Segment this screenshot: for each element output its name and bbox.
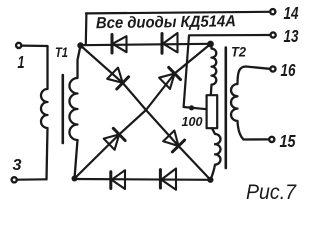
label T1 (55, 44, 68, 60)
svg-text:100: 100 (182, 114, 204, 129)
wire terminal 1 to T1 primary top (22, 44, 48, 47)
diode VD2 (top edge right, pointing left) (162, 33, 178, 53)
terminal 15 (269, 137, 274, 142)
svg-text:Все диоды КД514А: Все диоды КД514А (96, 13, 236, 32)
label 3 (13, 157, 22, 174)
label 100 (182, 114, 204, 129)
wire top rail to terminal 14 (86, 12, 269, 14)
wire terminal 13 to tap resistor (184, 35, 270, 109)
svg-text:13: 13 (284, 26, 299, 46)
T2 core (225, 48, 228, 169)
T1 core (61, 75, 64, 143)
terminal 3 (12, 177, 17, 182)
svg-text:14: 14 (284, 3, 299, 23)
svg-text:15: 15 (280, 131, 296, 151)
transformer T1 primary winding (41, 46, 48, 179)
T1 secondary winding (69, 46, 80, 179)
label 13 (284, 26, 299, 46)
node BR corner of ring (207, 177, 213, 183)
caption Рис.7 (246, 180, 297, 204)
T2 primary lower winding (210, 128, 220, 180)
terminal 16 (270, 66, 275, 71)
label 15 (280, 131, 296, 151)
terminal 1 (16, 43, 21, 48)
node TL corner of ring (77, 42, 83, 48)
svg-text:16: 16 (281, 60, 296, 80)
T2 primary upper winding (211, 44, 217, 95)
note: all diodes KD514A (96, 13, 236, 32)
wire ring diagonal BL to TR (75, 44, 211, 179)
wire TL corner up to top rail (85, 13, 88, 44)
terminal 14 (270, 9, 275, 14)
svg-text:Т1: Т1 (55, 44, 68, 60)
terminal 13 (271, 32, 276, 37)
label 14 (284, 3, 299, 23)
node BL corner of ring (72, 176, 78, 182)
resistor R1 100 (207, 95, 218, 128)
T2 secondary winding (231, 67, 270, 140)
diode VD3 (diagonal TL-BR upper, pointing to BR) (107, 68, 128, 89)
svg-text:1: 1 (18, 52, 25, 72)
node tap junction (189, 105, 194, 110)
wire ring top edge (81, 44, 212, 45)
svg-text:Т2: Т2 (231, 44, 246, 60)
diode VD7 (bottom edge left, pointing left) (111, 170, 125, 189)
svg-text:Рис.7: Рис.7 (246, 180, 297, 204)
wire terminal 3 to T1 primary bottom (18, 178, 47, 181)
wire ring diagonal TL to BR (81, 46, 211, 180)
label 16 (281, 60, 296, 80)
diode VD8 (bottom edge right, pointing left) (160, 169, 176, 190)
svg-text:3: 3 (13, 157, 22, 174)
diode VD5 (diagonal BL-TR lower, pointing to TR) (104, 128, 125, 150)
wire ring bottom edge (75, 178, 211, 181)
label T2 (231, 44, 246, 60)
diode VD1 (top edge left, pointing left) (112, 35, 127, 54)
diode VD4 (diagonal TL-BR lower, pointing to BR) (163, 131, 184, 152)
label 1 (18, 52, 25, 72)
node TR corner of ring (207, 41, 214, 48)
diode VD6 (diagonal BL-TR upper, pointing to TR) (159, 67, 180, 89)
